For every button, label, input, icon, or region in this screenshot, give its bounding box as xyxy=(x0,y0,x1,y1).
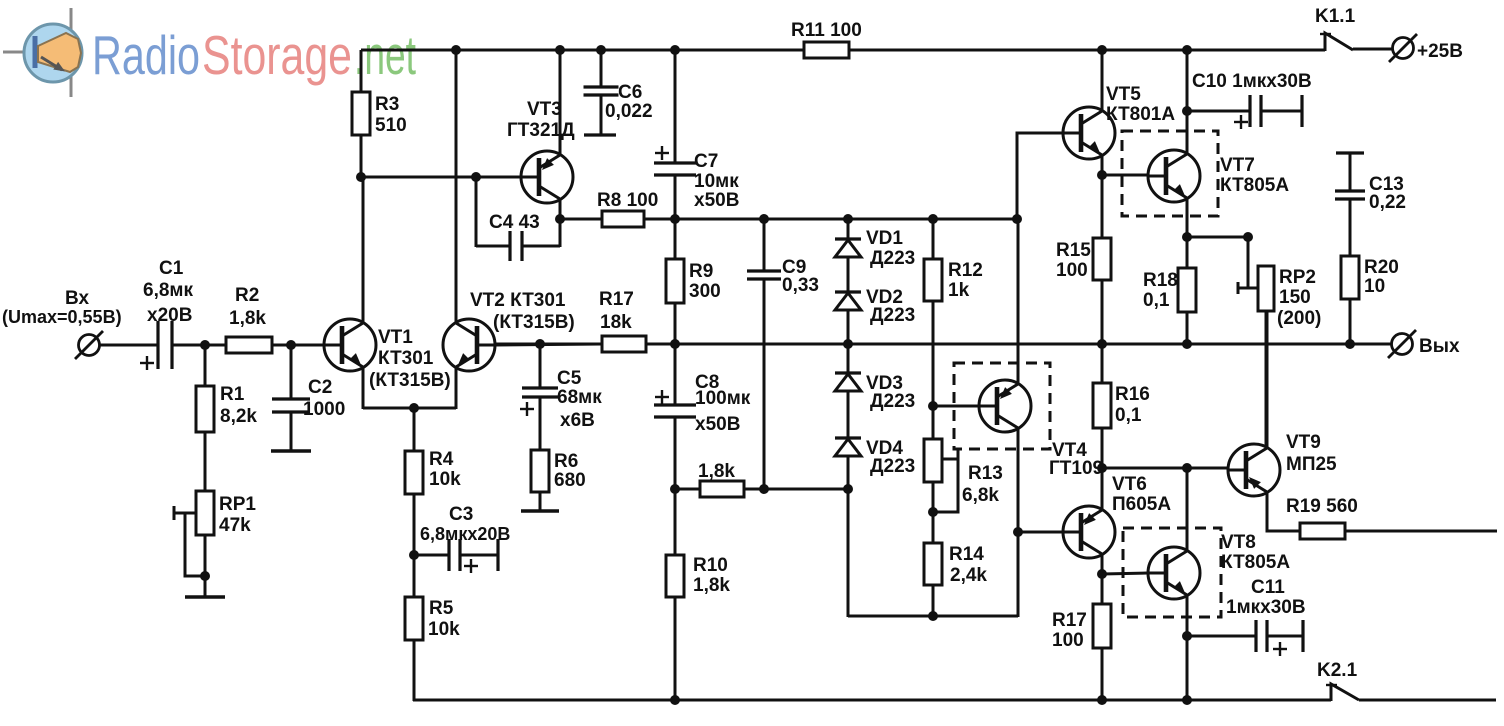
node VT4 emitter at top line xyxy=(1012,214,1022,224)
wire C8 top lead xyxy=(674,344,677,405)
svg-text:Storage: Storage xyxy=(202,24,352,86)
svg-text:VT1: VT1 xyxy=(378,327,413,348)
resistor R4 xyxy=(405,451,423,494)
svg-text:6,8k: 6,8k xyxy=(962,485,999,506)
label R6 680 xyxy=(554,451,586,491)
svg-text:R18: R18 xyxy=(1143,270,1178,291)
svg-text:R19 560: R19 560 xyxy=(1286,496,1358,517)
svg-text:K1.1: K1.1 xyxy=(1315,6,1356,27)
wire R4 to node xyxy=(413,494,416,556)
terminal input Vx xyxy=(75,331,103,359)
label C3 6,8mkx20V xyxy=(420,504,510,544)
svg-text:C2: C2 xyxy=(308,377,332,398)
wire R2 to VT1 base xyxy=(272,344,324,347)
dashed box VT8 xyxy=(1123,528,1221,617)
node C4 tap xyxy=(471,172,481,182)
wire C2 to ground xyxy=(290,412,293,450)
terminal +25V xyxy=(1389,34,1417,62)
svg-text:2,4k: 2,4k xyxy=(950,565,987,586)
wire VT7 collector to rail xyxy=(1186,50,1189,154)
label VT7 KT805A xyxy=(1220,155,1289,196)
wire C11 right lead xyxy=(1267,635,1303,638)
label R17 100 xyxy=(1052,610,1087,651)
capacitor C11 xyxy=(1256,620,1267,652)
transistor VT1 xyxy=(324,319,376,371)
node VD4 bottom xyxy=(843,484,853,494)
label R9 300 xyxy=(689,261,721,302)
svg-text:6,8мкх20В: 6,8мкх20В xyxy=(420,524,510,544)
svg-text:Вх: Вх xyxy=(65,288,89,309)
capacitor C1 xyxy=(158,321,172,369)
capacitor C2 xyxy=(272,399,310,412)
wire R13 to R14 xyxy=(932,482,935,543)
svg-text:Д223: Д223 xyxy=(870,391,915,412)
svg-text:Вых: Вых xyxy=(1419,336,1460,357)
svg-text:ГТ321Д: ГТ321Д xyxy=(507,120,575,141)
wire R6 to ground xyxy=(539,492,542,510)
resistor R17 18k xyxy=(602,336,646,352)
capacitor C7 xyxy=(654,163,696,175)
wire C5 top lead xyxy=(539,344,542,388)
svg-text:R1: R1 xyxy=(220,384,245,405)
label R20 10 xyxy=(1364,257,1399,297)
svg-text:510: 510 xyxy=(375,115,407,136)
svg-text:10мк: 10мк xyxy=(694,171,739,192)
svg-text:Д223: Д223 xyxy=(870,456,915,477)
node C10 tap xyxy=(1182,106,1192,116)
capacitor C3 xyxy=(414,539,498,571)
svg-text:(КТ315В): (КТ315В) xyxy=(493,312,575,333)
wire RP1 to ground xyxy=(204,535,207,597)
label C1 6,8mk x20V xyxy=(143,258,193,326)
open end C13 xyxy=(1336,151,1364,154)
wire VT1/VT2 emitters to R4 xyxy=(413,408,416,451)
resistor R20 xyxy=(1341,256,1359,299)
svg-text:100: 100 xyxy=(1056,260,1088,281)
node VT2 collector at rail xyxy=(451,45,461,55)
wire C10 lead xyxy=(1187,110,1249,113)
wire C11 lead xyxy=(1187,635,1255,638)
plus sign C11 xyxy=(1273,642,1287,656)
transistor VT5 xyxy=(1063,107,1115,159)
label R11 100 xyxy=(791,20,862,41)
node C9 bottom xyxy=(759,484,769,494)
label R10 1,8k xyxy=(693,555,730,596)
label VT4 GT109 xyxy=(1049,440,1103,479)
wire rail to R3 xyxy=(360,50,363,92)
svg-text:C5: C5 xyxy=(557,368,582,389)
label VT9 MP25 xyxy=(1286,432,1337,475)
wire VT3 base line xyxy=(361,176,521,179)
wire VD4 to node xyxy=(847,456,850,489)
node R16 bottom / VT6 emitter xyxy=(1097,463,1107,473)
wire C2 lead xyxy=(290,345,293,399)
label R1 8,2k xyxy=(220,384,257,427)
svg-text:VT7: VT7 xyxy=(1220,155,1255,176)
wire R14 bottom lead xyxy=(932,585,935,617)
resistor R2 xyxy=(226,337,272,353)
wire C9 bottom lead xyxy=(763,279,766,489)
node VT7 emitter / R18 xyxy=(1182,232,1192,242)
svg-text:R20: R20 xyxy=(1364,257,1399,278)
node RP2 wiper line xyxy=(1243,232,1253,242)
node 1.8k left xyxy=(670,484,680,494)
wire R19 to right edge xyxy=(1345,530,1497,533)
wire bias bottom line xyxy=(848,615,1018,618)
wire R10 top lead xyxy=(674,489,677,555)
resistor R11 xyxy=(804,42,849,58)
capacitor C6 xyxy=(584,87,619,95)
node RP1 bottom xyxy=(200,571,210,581)
svg-text:R15: R15 xyxy=(1056,240,1091,261)
label VT6 P605A xyxy=(1112,474,1171,515)
label VT1 KT301 (KT315B) xyxy=(369,327,451,391)
label R14 2,4k xyxy=(949,544,987,586)
svg-text:КТ805А: КТ805А xyxy=(1220,175,1289,196)
svg-text:VT2 КТ301: VT2 КТ301 xyxy=(470,290,566,311)
label C11 1mkx30V xyxy=(1226,577,1306,618)
wire C5 to R6 xyxy=(539,397,542,450)
node VD1 top xyxy=(843,214,853,224)
logo text RadioStorage.net xyxy=(92,24,416,86)
label VD2 D223 xyxy=(866,287,915,326)
ground C2 xyxy=(271,449,311,452)
label R5 10k xyxy=(428,598,460,640)
wire VD2 to mid line xyxy=(847,310,850,344)
svg-text:R3: R3 xyxy=(375,94,399,115)
svg-text:680: 680 xyxy=(554,470,586,491)
svg-text:0,022: 0,022 xyxy=(605,101,653,122)
label C13 0,22 xyxy=(1369,174,1406,213)
svg-text:10k: 10k xyxy=(429,469,461,490)
wire VT6 collector down xyxy=(1101,554,1104,575)
resistor R10 xyxy=(666,555,684,597)
svg-text:П605А: П605А xyxy=(1112,494,1171,515)
label RP2 150 (200) xyxy=(1277,267,1321,329)
wire R16 to VT9 base line xyxy=(1101,428,1104,469)
wire diode chain down xyxy=(847,489,850,617)
wire VT3 emitter to rail xyxy=(559,50,562,155)
wire VT7 emitter xyxy=(1186,198,1189,238)
svg-text:КТ805А: КТ805А xyxy=(1221,552,1290,573)
wire R15 to output line xyxy=(1101,280,1104,344)
node R4 tap xyxy=(409,403,419,413)
wire C13 to R20 xyxy=(1349,199,1352,256)
wire to 1.8k resistor xyxy=(675,488,700,491)
transistor VT8 xyxy=(1148,547,1200,599)
label Vx xyxy=(65,288,89,309)
label C9 0,33 xyxy=(782,257,819,296)
label VT8 KT805A xyxy=(1221,532,1290,573)
node VT5 emitter / VT7 base / R15 xyxy=(1097,170,1107,180)
wire R20 to output line xyxy=(1349,299,1352,344)
node diode chain mid xyxy=(843,339,853,349)
svg-text:x50В: x50В xyxy=(695,414,740,435)
svg-text:Д223: Д223 xyxy=(870,305,915,326)
svg-text:6,8мк: 6,8мк xyxy=(143,280,193,301)
label R18 0,1 xyxy=(1143,270,1178,311)
svg-text:R13: R13 xyxy=(968,463,1003,484)
open end C11 xyxy=(1301,620,1304,652)
svg-text:1,8k: 1,8k xyxy=(229,308,266,329)
ground R6 xyxy=(521,509,559,512)
plus sign C3 xyxy=(464,559,478,573)
wire R17 to bottom rail xyxy=(1101,648,1104,701)
plus sign C7 xyxy=(655,146,669,160)
label Vyh xyxy=(1419,336,1460,357)
wire VT8 emitter down xyxy=(1186,595,1189,701)
svg-text:18k: 18k xyxy=(600,312,632,333)
svg-text:R17: R17 xyxy=(599,289,634,310)
node VT8 emitter / C11 xyxy=(1182,631,1192,641)
open end C6 xyxy=(584,133,616,136)
svg-text:R16: R16 xyxy=(1115,384,1150,405)
node R18 bottom xyxy=(1182,339,1192,349)
node C6 at rail xyxy=(596,45,606,55)
svg-text:1,8k: 1,8k xyxy=(693,575,730,596)
svg-text:(КТ315В): (КТ315В) xyxy=(369,370,451,391)
node C3 tap xyxy=(409,550,419,560)
svg-text:150: 150 xyxy=(1279,287,1311,308)
wire R1 to RP1 xyxy=(204,432,207,491)
wire VT8 collector up xyxy=(1186,468,1189,551)
label C4 43 xyxy=(489,212,540,233)
wire shared emitter line xyxy=(363,407,456,410)
potentiometer RP2 xyxy=(1238,266,1274,311)
resistor R3 xyxy=(352,92,370,135)
wire VT9 base line xyxy=(1102,467,1228,470)
ground RP1 xyxy=(185,595,225,598)
transistor VT7 xyxy=(1148,150,1200,202)
node VT4 base tap xyxy=(928,401,938,411)
wire bottom rail xyxy=(413,699,1331,702)
svg-text:.net: .net xyxy=(354,24,416,86)
resistor R9 xyxy=(666,259,684,303)
wire VT3 collector xyxy=(559,199,562,247)
potentiometer RP1 xyxy=(174,491,214,576)
svg-text:8,2k: 8,2k xyxy=(220,406,257,427)
svg-text:R5: R5 xyxy=(429,598,454,619)
open end C10 xyxy=(1300,95,1303,127)
transistor VT3 xyxy=(521,151,573,203)
wire bottom rail right of K2.1 xyxy=(1359,699,1496,702)
wire VT7 base lead xyxy=(1102,174,1148,177)
label K2.1 xyxy=(1317,660,1358,681)
resistor 1,8k xyxy=(700,481,744,497)
label C7 10mk x50V xyxy=(694,151,739,211)
wire VT5 emitter to VT7 base xyxy=(1101,155,1104,176)
diode VD1 xyxy=(835,239,861,257)
wire input to C1 xyxy=(100,344,157,347)
label VT2 KT301 (KT315B) xyxy=(470,290,575,333)
svg-text:VT8: VT8 xyxy=(1221,532,1256,553)
node R8 left xyxy=(555,214,565,224)
svg-text:R4: R4 xyxy=(429,449,454,470)
svg-text:R12: R12 xyxy=(948,260,983,281)
capacitor C8 xyxy=(654,405,696,417)
node C5 tap xyxy=(535,339,545,349)
terminal output Vyh xyxy=(1388,330,1416,358)
diode VD3 xyxy=(835,373,861,391)
label VT3 GT321D xyxy=(507,99,575,141)
svg-text:100мк: 100мк xyxy=(695,388,751,409)
label VD1 D223 xyxy=(866,228,915,269)
wire VT4 emitter up (crosses output line) xyxy=(1017,219,1020,384)
label C2 1000 xyxy=(303,377,345,420)
node VT6 base tap xyxy=(1013,527,1023,537)
svg-text:1,8k: 1,8k xyxy=(698,461,735,482)
label C10 1mkx30V xyxy=(1192,71,1312,92)
transistor VT9 xyxy=(1228,444,1280,496)
wire VD1 top lead xyxy=(847,219,850,240)
svg-text:R6: R6 xyxy=(554,451,578,472)
wire VT4 base lead xyxy=(933,405,979,408)
wire C9 top lead xyxy=(763,219,766,271)
wire VT5 base riser xyxy=(1017,133,1063,219)
wire VT8 base lead xyxy=(1102,573,1148,574)
svg-text:C1: C1 xyxy=(159,258,184,279)
label R4 10k xyxy=(429,449,461,490)
svg-text:КТ801А: КТ801А xyxy=(1106,104,1175,125)
resistor R8 xyxy=(602,211,644,227)
wire VT5 collector to rail xyxy=(1101,50,1104,111)
node R12 top xyxy=(928,214,938,224)
transistor VT6 xyxy=(1063,506,1115,558)
svg-text:ГТ109: ГТ109 xyxy=(1049,458,1103,479)
wire VT1 collector xyxy=(362,177,365,323)
svg-text:1000: 1000 xyxy=(303,399,345,420)
plus sign C10 xyxy=(1234,115,1248,129)
wire 1.8k to diode chain xyxy=(744,488,848,491)
wire C10 right lead xyxy=(1261,110,1302,113)
resistor R1 xyxy=(196,386,214,432)
node VT7 at rail xyxy=(1182,45,1192,55)
wire VT1 emitter xyxy=(362,367,365,409)
node C9 top xyxy=(759,214,769,224)
node VT8 collector tap xyxy=(1182,463,1192,473)
label VD3 D223 xyxy=(866,373,915,412)
wire R12 to R13 (crosses output line) xyxy=(932,301,935,439)
logo icon (stylized transistor with speaker) xyxy=(3,8,82,97)
resistor R12 xyxy=(924,259,942,301)
wire C6 lead xyxy=(600,50,603,87)
node R8/R9/C7 xyxy=(670,214,680,224)
wire VT4 collector down xyxy=(1017,428,1020,617)
wire R8 to VT5 base corner xyxy=(644,218,1017,221)
node R13 wiper join xyxy=(928,507,938,517)
svg-text:R17: R17 xyxy=(1052,610,1087,631)
wire R9 to mid line xyxy=(674,303,677,344)
svg-text:C7: C7 xyxy=(694,151,718,172)
wire C1 to R2 xyxy=(172,344,226,347)
svg-text:1k: 1k xyxy=(948,280,970,301)
capacitor C13 xyxy=(1335,191,1365,199)
svg-text:0,33: 0,33 xyxy=(782,275,819,296)
svg-text:+25В: +25В xyxy=(1417,41,1463,62)
wire VT2 base to mid line xyxy=(495,344,602,345)
svg-text:RP1: RP1 xyxy=(219,494,256,515)
svg-text:C11: C11 xyxy=(1251,577,1285,598)
svg-text:C6: C6 xyxy=(618,82,642,103)
wire +25V top rail (left of R11) xyxy=(361,49,804,52)
svg-text:Д223: Д223 xyxy=(870,248,915,269)
wire R12 top lead xyxy=(932,219,935,259)
svg-text:10: 10 xyxy=(1364,276,1385,297)
label 1,8k xyxy=(698,461,735,482)
resistor R5 xyxy=(405,597,423,640)
diode VD2 xyxy=(835,292,861,310)
wire output line xyxy=(495,343,1392,346)
capacitor C5 xyxy=(522,388,558,397)
capacitor C4 xyxy=(476,231,560,261)
wire C7 lead xyxy=(674,50,677,163)
svg-text:x50В: x50В xyxy=(694,190,739,211)
resistor R14 xyxy=(924,543,942,585)
wire RP2 to VT9 collector xyxy=(1265,311,1268,448)
wire R1 lead xyxy=(204,345,207,386)
wire R10 to bottom rail xyxy=(674,597,677,701)
svg-text:x20В: x20В xyxy=(147,305,192,326)
svg-text:10k: 10k xyxy=(428,619,460,640)
node R15/R16 xyxy=(1097,339,1107,349)
switch K2.1 xyxy=(1326,684,1359,701)
svg-text:100: 100 xyxy=(1052,630,1084,651)
svg-text:VT9: VT9 xyxy=(1286,432,1321,453)
dashed box VT7 xyxy=(1122,131,1218,216)
svg-text:VT3: VT3 xyxy=(527,99,562,120)
node R3/VT1 collector/VT3 base xyxy=(356,172,366,182)
label R12 1k xyxy=(948,260,983,301)
svg-text:47k: 47k xyxy=(219,515,251,536)
node VT3 at rail xyxy=(555,45,565,55)
svg-text:(Umax=0,55В): (Umax=0,55В) xyxy=(2,307,122,327)
diode VD4 xyxy=(835,438,861,456)
node R17 at bottom rail xyxy=(1097,695,1107,705)
capacitor C10 xyxy=(1250,95,1261,127)
svg-text:R9: R9 xyxy=(689,261,713,282)
wire R18 to output line xyxy=(1186,312,1189,344)
svg-text:R11 100: R11 100 xyxy=(791,20,862,41)
wire RP2 wiper drop xyxy=(1247,237,1250,288)
wire R8 left lead xyxy=(560,218,602,221)
label R17 18k xyxy=(599,289,634,333)
label C5 68mk x6V xyxy=(557,368,602,431)
label R3 510 xyxy=(375,94,407,136)
svg-text:МП25: МП25 xyxy=(1286,454,1337,475)
wire C8 to node xyxy=(674,417,677,489)
wire C3 node to R5 xyxy=(413,555,416,597)
label R16 0,1 xyxy=(1115,384,1150,426)
resistor R19 xyxy=(1300,523,1345,539)
resistor R18 xyxy=(1178,237,1196,312)
svg-text:VD1: VD1 xyxy=(866,228,903,249)
svg-text:RP2: RP2 xyxy=(1279,267,1316,288)
svg-text:0,22: 0,22 xyxy=(1369,192,1406,213)
label R13 6,8k xyxy=(962,463,1003,506)
svg-text:R8 100: R8 100 xyxy=(597,190,658,211)
wire mid to VD3 xyxy=(847,344,850,374)
capacitor C9 xyxy=(747,271,781,279)
wire VD1-VD2 xyxy=(847,257,850,293)
svg-text:R2: R2 xyxy=(235,285,259,306)
label Umax xyxy=(2,307,122,327)
trimmer R13 xyxy=(924,439,958,512)
label R8 100 xyxy=(597,190,658,211)
node VT5 at rail xyxy=(1097,45,1107,55)
wire C6 stub xyxy=(600,95,603,135)
node R20 bottom xyxy=(1345,339,1355,349)
wire VT9 collector up xyxy=(1266,311,1269,448)
